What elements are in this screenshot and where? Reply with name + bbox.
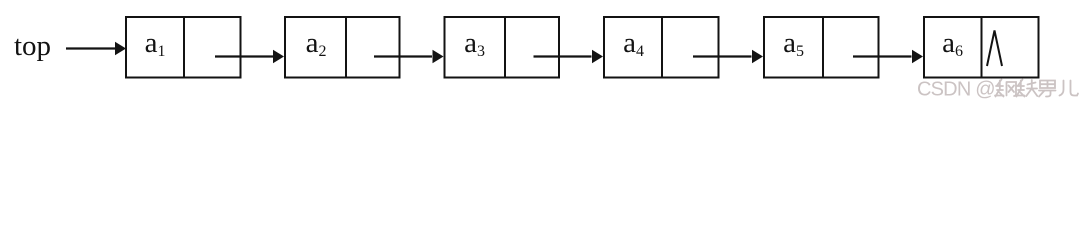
watermark glyph nan	[1039, 81, 1056, 97]
watermark CJK glyphs (drawn)	[995, 80, 1078, 97]
svg-text:a4: a4	[623, 27, 644, 60]
node a2 box	[285, 17, 400, 78]
wire arrow a3 to a4	[534, 55, 592, 57]
svg-text:a6: a6	[942, 27, 963, 60]
node a4 box	[604, 17, 719, 78]
svg-text:a3: a3	[464, 27, 485, 60]
svg-text:a1: a1	[145, 27, 166, 60]
node a1 box	[126, 17, 241, 78]
node a3 box	[445, 17, 560, 78]
wire arrow a5 to a6	[853, 55, 912, 57]
wire top arrow	[66, 47, 116, 49]
svg-text:a2: a2	[306, 27, 327, 60]
null pointer symbol in a6	[987, 31, 1002, 67]
node a5 box	[764, 17, 879, 78]
wire arrow a2 to a3	[374, 55, 432, 57]
svg-text:top: top	[14, 30, 51, 62]
watermark glyph gang	[995, 80, 1016, 97]
wire arrow a4 to a5	[693, 55, 752, 57]
node a6 box	[924, 17, 1039, 78]
watermark glyph tie	[1016, 80, 1037, 97]
watermark glyph er	[1060, 81, 1079, 96]
svg-text:CSDN @: CSDN @	[917, 79, 995, 101]
wire arrow a1 to a2	[215, 55, 273, 57]
svg-text:a5: a5	[783, 27, 804, 60]
